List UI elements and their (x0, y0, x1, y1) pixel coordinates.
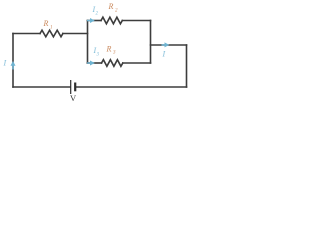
wire: right vertical (186, 45, 188, 87)
battery short plate (74, 83, 76, 92)
wire: R1 to parallel box (63, 33, 88, 35)
label R3 (106, 45, 117, 56)
arrow I left (up) (12, 65, 14, 70)
svg-text:R: R (106, 45, 112, 54)
svg-text:V: V (70, 93, 77, 103)
svg-text:R: R (108, 2, 114, 11)
arrow I right wire (right) (162, 44, 166, 46)
resistor R2 (101, 17, 122, 24)
wire: middle right horizontal (151, 44, 187, 46)
wire: bottom left (to battery) (13, 86, 70, 88)
svg-text:I: I (3, 59, 7, 68)
wire: top branch right stub (122, 20, 150, 22)
wire: top-left horizontal (left of R1) (13, 33, 40, 35)
label R1 (43, 19, 53, 31)
battery V plates (71, 80, 76, 94)
wire: top branch left stub (88, 20, 102, 22)
resistor R1 (40, 30, 63, 37)
label I3 (93, 46, 100, 58)
wire: parallel box left vertical (87, 21, 89, 64)
svg-text:I: I (162, 50, 166, 59)
wire: bottom branch left stub (88, 62, 102, 64)
current arrows (blue) (11, 18, 170, 70)
wire: bottom right (battery to right) (76, 86, 187, 88)
label R2 (108, 2, 119, 14)
label I2 (92, 5, 99, 17)
battery long plate (70, 80, 72, 94)
svg-text:1: 1 (50, 26, 53, 31)
svg-text:R: R (43, 19, 49, 28)
resistor R3 (102, 60, 123, 67)
wire: parallel box right vertical (150, 21, 152, 64)
arrow I3 bottom branch (right) (87, 62, 91, 64)
arrow I2 top branch (right) (87, 20, 91, 22)
wire: bottom branch right stub (123, 62, 151, 64)
wire: left vertical (12, 34, 14, 88)
